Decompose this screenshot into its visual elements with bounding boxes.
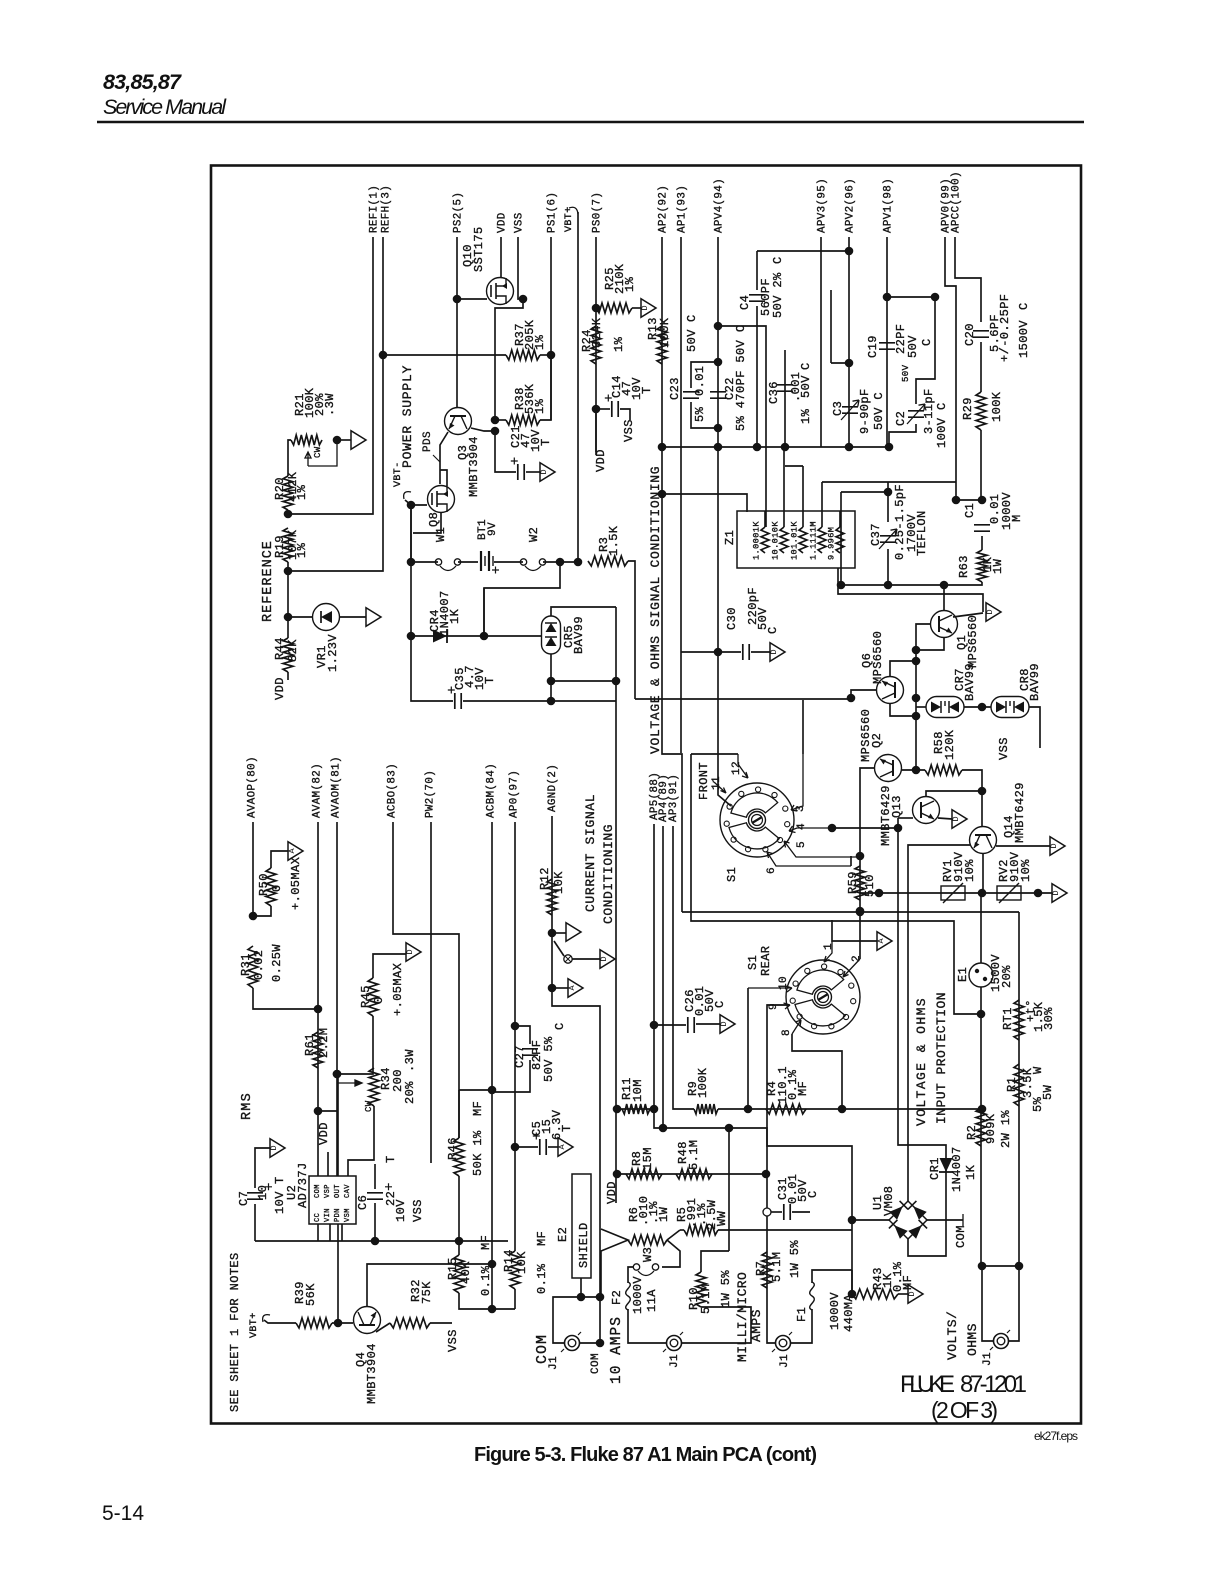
svg-text:S1: S1 [746,955,760,970]
svg-text:C4: C4 [738,295,752,310]
wire R10 link [728,1229,730,1251]
wire CR4 row [411,635,542,637]
ground D C7 [270,1139,285,1158]
junction R50 [249,912,258,921]
PDS leader [433,455,440,462]
capacitor C20 [973,331,989,337]
junction C23 bottom [714,424,723,433]
ground D C21 [540,463,555,482]
S1 front box [691,754,981,1014]
wire R21 left [288,440,291,476]
svg-text:T: T [640,386,654,394]
capacitor C27 [522,1049,538,1055]
pin 11 arrow [714,782,726,793]
svg-text:1W: 1W [991,558,1005,574]
svg-text:D: D [985,609,995,614]
junction bus447 x757 [753,443,762,452]
wire AVAM [317,822,319,1176]
wire PW2 [430,822,432,1163]
wire AP4 [662,826,664,1128]
transistor Q10 SST175 [487,278,514,305]
junction E1 bottom [977,1010,986,1019]
svg-text:1W 5%: 1W 5% [788,1240,802,1278]
ground D RV [1052,884,1067,903]
svg-text:50V: 50V [799,375,813,398]
svg-text:E2: E2 [556,1227,570,1242]
resistor R63 [977,550,987,582]
svg-text:(2 OF 3): (2 OF 3) [931,1397,998,1423]
schematic border frame [211,166,1081,1424]
wire pin3 feed [802,700,804,754]
svg-text:1K: 1K [448,608,462,624]
wire APCC chain [980,342,982,392]
wire R39-Q4 [332,1322,353,1324]
junction 617-1109 [613,1105,622,1114]
svg-text:11A: 11A [645,1289,659,1312]
wire Q10 source down [495,299,523,420]
connector J1 com [565,1336,580,1351]
junction R1 bottom [1015,1262,1024,1271]
svg-text:REFI(1): REFI(1) [369,185,381,233]
transistor Q1 MPS6560 [931,611,958,638]
wire vbt minus down [410,505,412,636]
svg-text:FRONT: FRONT [697,762,711,800]
bus top mid [662,446,889,448]
dual diode CR8 BAV99 [991,697,1029,718]
U2 pin stub bot3 [341,1224,343,1241]
pin 9 arrow rear [767,1003,790,1009]
wire C35 row [411,636,453,701]
junction x916 c [912,694,921,703]
svg-text:C27: C27 [513,1045,527,1068]
svg-text:+.05MAX: +.05MAX [391,963,405,1016]
junction C27 top [511,1022,520,1031]
wire y1128 link [654,1109,767,1208]
svg-text:VIN: VIN [324,1208,332,1222]
arrow R12 [566,923,581,942]
wire R43 right [898,1293,908,1295]
junction 654-1109 [650,1105,659,1114]
fuse F2 [626,1282,631,1310]
resistor Z1 element 9.996M [836,527,844,553]
svg-text:+/-0.25PF: +/-0.25PF [998,294,1012,362]
svg-text:D: D [907,1291,917,1296]
wire CR5 tap [551,680,616,682]
junction PS2-gate [453,295,462,304]
junction Q10 source [519,295,528,304]
wire E1 top [980,893,982,963]
svg-text:MF: MF [471,1101,485,1116]
svg-text:R29: R29 [961,397,975,420]
svg-text:RT1: RT1 [1001,1007,1015,1030]
svg-text:VSS: VSS [997,737,1011,760]
wire Q13 base [898,817,913,819]
svg-text:D: D [951,816,961,821]
junction AP2 z1 feed [658,490,667,499]
resistor R8 [626,1169,662,1179]
transistor Q3 MMBT3904 [445,408,472,435]
svg-text:CURRENT SIGNAL: CURRENT SIGNAL [583,794,598,912]
svg-text:C36: C36 [767,381,781,404]
resistor R37 [506,350,540,360]
svg-text:MF: MF [796,1081,810,1096]
svg-text:50V: 50V [685,329,699,352]
ground D Q1 [986,603,1001,622]
svg-text:C2: C2 [894,411,908,426]
junction R61 top [314,1107,323,1116]
svg-text:1%: 1% [533,398,547,414]
svg-text:J1: J1 [548,1356,560,1370]
ground D Q13 [952,810,967,829]
resistor R20 [283,476,293,510]
wire Q8 source [413,513,441,533]
junction R2 bottom [978,1262,987,1271]
wire APV4(94) [717,237,719,652]
svg-text:D: D [1049,843,1059,848]
svg-text:ACBM(84): ACBM(84) [486,763,498,818]
wire AP3 [673,826,694,1109]
svg-text:FLUKE: FLUKE [900,1371,955,1398]
wire pin10 route [747,988,749,1109]
wire x898 column [897,818,899,921]
svg-text:MMBT6429: MMBT6429 [1013,782,1027,843]
capacitor C14 [612,401,618,417]
wire R6 right diag2 [662,1240,680,1267]
bus y828 [832,827,898,829]
svg-text:100K: 100K [696,1067,710,1098]
svg-text:1: 1 [823,943,835,950]
svg-text:C: C [771,256,785,264]
svg-text:VBT+: VBT+ [564,206,575,232]
wire U1 right [927,1219,963,1221]
junction C19 b [931,293,940,302]
svg-text:10%: 10% [1019,859,1033,882]
wire Q2 row [901,769,925,771]
VBT+ hook q4 [263,1315,270,1322]
svg-text:20%: 20% [403,1081,417,1104]
wire CR7 left [916,706,926,708]
wire R37 bus [383,354,506,356]
svg-text:S1: S1 [725,867,739,882]
wire AP2(92) [662,237,682,912]
svg-text:CAV: CAV [344,1184,352,1198]
junction bus699 end [847,694,856,703]
svg-text:CONDITIONING: CONDITIONING [601,824,616,924]
svg-text:W3: W3 [641,1247,655,1262]
svg-text:VBT-: VBT- [393,461,404,487]
resistor R34 [369,1068,379,1106]
svg-text:Service Manual: Service Manual [103,95,227,119]
shield E2 box [572,1174,591,1278]
wire VBT- to Q8 [405,500,427,505]
junction COM a [577,1293,586,1302]
resistor R14 [510,1251,520,1289]
wire R6 left diag [601,1229,628,1297]
wire R14 bottom [514,1289,516,1309]
junction R59 bottom [856,907,865,916]
svg-text:VSP: VSP [324,1184,332,1198]
wire E1 chain down [980,1014,982,1266]
wire C30 feed [681,651,741,653]
svg-text:1%: 1% [295,484,309,500]
svg-text:VSS: VSS [622,419,636,442]
svg-text:CC: CC [314,1213,322,1222]
wire CR4-VBT loop [483,588,485,636]
svg-text:9V: 9V [487,522,499,536]
diode bridge U1 VM08 [889,1201,927,1239]
resistor R2 [976,1108,986,1146]
resistor R6 [628,1235,667,1245]
wire AGND [552,816,600,1297]
svg-text:Figure 5-3. Fluke 87 A1 Main P: Figure 5-3. Fluke 87 A1 Main PCA (cont) [474,1444,817,1466]
svg-text:0.1%: 0.1% [479,1265,493,1296]
wire R34 bottom [348,1106,374,1176]
svg-text:CW: CW [313,446,323,458]
wire C31 right [792,1211,810,1213]
svg-text:101.01K: 101.01K [790,521,800,560]
svg-text:C: C [920,338,934,346]
wire c1 link [956,499,982,501]
wire Q1 emitter out [953,613,983,617]
svg-text:D: D [1051,890,1061,895]
guard line y482 [822,481,956,483]
wire RV bus [879,892,1052,894]
wire x898 lower [898,921,908,1145]
svg-text:1000V: 1000V [1000,492,1014,530]
svg-text:15M: 15M [641,1147,655,1170]
wire R29 bottom [980,430,982,500]
svg-text:Q13: Q13 [890,795,904,818]
junction CR4 right [480,632,489,641]
svg-text:1000V: 1000V [631,1276,645,1314]
wire F1 top [812,1270,852,1283]
wire Q6 emitter [890,704,916,716]
svg-text:1.0001K: 1.0001K [752,521,762,560]
wire R19-R44 [287,562,289,638]
junction C35-CR5 [547,697,556,706]
resistor Z1 element 1.0001K [761,527,769,553]
svg-text:AP1(93): AP1(93) [677,185,689,233]
node circle X [564,955,572,963]
svg-text:83,85,87: 83,85,87 [103,70,182,94]
junction C6 [371,1237,380,1246]
wire Q2 base [860,768,874,856]
junction R31-AVAM [314,1005,323,1014]
capacitor C30 [743,644,749,660]
svg-text:50V 5%: 50V 5% [542,1036,556,1082]
wire R38 left [495,419,506,421]
junction W2-R3 a [556,558,565,567]
svg-text:C6: C6 [356,1195,370,1210]
jumper W2 [520,559,526,565]
resistor R46 [454,1138,464,1176]
svg-text:1N4007: 1N4007 [950,1146,964,1192]
bus y585 [841,584,945,586]
wire C23 bottom [691,402,718,428]
wire VDD to Q10 drain [500,237,502,278]
svg-text:OHMS: OHMS [965,1323,980,1356]
junction U1 left [848,1216,857,1225]
transistor Q8 MMBT3904 [428,486,455,513]
resistor R61 [313,1032,323,1068]
wire PS2(5) [456,237,458,407]
arrow out R21 [351,431,366,450]
wire pin2 feed [859,912,861,959]
diode CR1 1N4007 [940,1158,953,1172]
wire W2 right [543,561,578,563]
svg-text:BAV99: BAV99 [963,663,977,701]
svg-text:1000V: 1000V [828,1292,842,1330]
connector J1 milli [776,1336,791,1351]
resistor R58 [925,765,962,775]
arrow A R50 [288,842,303,861]
pin 8 arrow rear [792,1020,801,1034]
wire C21 right [526,471,540,473]
wire C4 bottom [756,306,758,447]
wire battery row [411,505,438,562]
svg-text:T: T [384,1155,398,1163]
svg-text:C: C [553,1022,567,1030]
transistor Q13 MMBT6429 [913,797,940,824]
svg-text:100K: 100K [990,391,1004,422]
svg-text:PDS: PDS [422,431,434,452]
junction C26 [650,1021,659,1030]
wire VBT+ vertical [577,212,579,562]
svg-text:9-90pF: 9-90pF [858,388,872,434]
wire U2-Q4 [337,1224,339,1323]
junction 888-585 [884,581,893,590]
junction R43 [848,1290,857,1299]
wire C2 bottom [889,424,916,447]
svg-text:VSM: VSM [344,1208,352,1222]
junction Q2 row [912,766,921,775]
svg-text:REAR: REAR [759,946,773,976]
varistor RV1 [941,886,965,900]
svg-text:D: D [769,649,779,654]
wire C14 right [620,409,630,420]
svg-text:CR1: CR1 [928,1157,942,1180]
svg-text:C: C [799,362,813,370]
wire R12 tri2 [552,987,568,989]
pin 10 arrow rear [748,986,792,992]
junction APV2 top [845,247,854,256]
wire x860 [859,856,861,911]
resistor R59 [855,866,865,900]
resistor R32 [390,1318,430,1328]
junction bus1241-R46 [455,1237,464,1246]
svg-text:BAV99: BAV99 [572,616,586,654]
svg-text:VOLTAGE & OHMS SIGNAL CONDIT: VOLTAGE & OHMS SIGNAL CONDITIONING [648,466,663,754]
guard line y492 [841,491,888,493]
wire R58 right [962,770,982,827]
junction R45-AVAOM [333,1070,342,1079]
junction CR7-CR8 [978,703,987,712]
wire APCC(100) [955,237,981,322]
guard line y594 [838,568,983,612]
wire node out [572,958,600,960]
junction U2-AVAOM [333,1070,342,1079]
wire R38 right [540,355,551,420]
svg-text:T: T [483,676,497,684]
wire R50 path [253,906,271,916]
junction R38 left [491,416,500,425]
svg-text:D: D [599,956,609,961]
junction R21 right [333,436,342,445]
svg-text:D: D [640,305,650,310]
wire R3 right [628,561,635,699]
junction q13 node [978,787,987,796]
resistor R12 [547,879,557,915]
ground D R25 [641,299,656,318]
svg-text:AP3(91): AP3(91) [668,774,680,822]
capacitor C5 [540,1139,546,1155]
VBT+ hook [569,207,578,214]
junction W2-R3 b [574,558,583,567]
svg-text:75K: 75K [420,1281,434,1304]
capacitor C2 variable [908,411,924,417]
wire AP0 [514,822,516,1251]
guard drop x888 [887,482,889,522]
svg-text:PW2(70): PW2(70) [425,770,437,818]
junction R25 [592,304,601,313]
wire C6 bottom [374,1203,376,1241]
pin 1 arrow rear [824,941,832,962]
svg-text:POWER SUPPLY: POWER SUPPLY [400,365,415,468]
wire AVAOM [336,822,338,1176]
svg-text:VSS: VSS [411,1199,425,1222]
wire c1-r63 [981,536,983,550]
transistor Q6 MPS6560 [877,677,904,704]
junction 729-1128 [725,1124,734,1133]
junction R12 a [548,929,557,938]
junction C19 a [883,293,892,302]
resistor R29 [976,392,986,430]
svg-text:MPS6560: MPS6560 [966,615,980,668]
svg-text:J1: J1 [779,1354,791,1368]
wire C7 chain [254,1204,256,1241]
arrow out VR1 [366,608,381,627]
svg-text:SST175: SST175 [472,226,486,272]
resistor R5 [684,1225,718,1235]
junction COM c [596,1339,605,1348]
svg-text:WW: WW [715,1210,729,1226]
svg-text:RMS: RMS [240,1092,255,1120]
svg-text:AMPS: AMPS [749,1309,764,1342]
wire C21 [495,431,516,472]
wire x1019 column [1018,912,1020,1266]
svg-text:F2: F2 [610,1290,624,1305]
wire pin6 up [850,856,852,866]
ground A C5 [558,1138,573,1157]
svg-text:10M: 10M [631,1079,645,1102]
svg-text:1W 5%: 1W 5% [719,1270,733,1308]
resistor Z1 element 10.010K [780,527,788,553]
wire C27 loop [515,1026,530,1044]
wire R37 right [540,354,551,356]
wire Z1 10.010K top [783,511,785,527]
svg-text:TEFLON: TEFLON [915,510,929,556]
wire BT1-W2 [494,561,523,563]
svg-text:1.1111M: 1.1111M [809,521,819,560]
pin 3 arrow [791,754,803,811]
wire Q14 emitter [996,845,1050,847]
wire Q8 drain [440,470,447,486]
svg-text:VDD: VDD [317,1122,331,1145]
svg-text:C: C [713,1000,727,1008]
svg-text:APV3(95): APV3(95) [817,178,829,233]
diode CR4 1N4007 [433,630,447,643]
svg-text:1.5K: 1.5K [607,525,621,556]
